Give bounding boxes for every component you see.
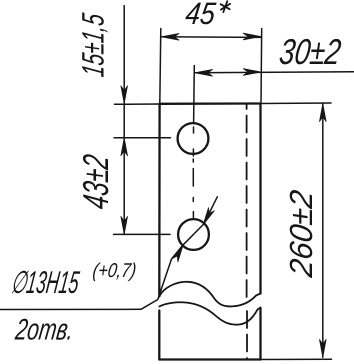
text 260±2 (rotated): [283, 187, 319, 280]
text 2отв.: [13, 312, 76, 347]
hidden bend line (dashed) lower: [246, 311, 248, 359]
arrow dim45 left: [162, 34, 180, 41]
dim 260: dimension line: [322, 104, 324, 357]
svg-text:43±2: 43±2: [75, 152, 116, 211]
text 45*: [183, 0, 218, 31]
callout shelf line: [1, 308, 142, 310]
plate right edge upper: [259, 104, 261, 294]
dim 45: right extension line: [260, 29, 263, 104]
plate right edge lower: [259, 308, 261, 360]
arrow dim15 down: [121, 86, 128, 104]
text 43±2 (rotated): [75, 152, 116, 211]
plate left edge upper: [158, 104, 161, 297]
svg-text:45: 45: [183, 0, 218, 31]
hole 1 (upper): [178, 123, 209, 154]
vertical centerline above hole 1 / extension for 30 dim: [193, 66, 196, 124]
break wavy line lower: [159, 302, 260, 324]
svg-text:260±2: 260±2: [283, 187, 319, 280]
text star of 45* (drawn asterisk): [221, 1, 231, 12]
text 30±2: [277, 32, 343, 72]
arrow dim30 left: [195, 70, 213, 77]
dim 45: left extension line: [160, 29, 161, 104]
top edge extension left (for 15 dim): [115, 103, 160, 105]
leader line to callout shelf: [141, 245, 183, 309]
dim 15/43: vertical dimension line: [123, 6, 125, 235]
dim 260: bottom extension (plate bottom edge extended): [261, 358, 332, 360]
dim 45: dimension line: [161, 36, 262, 39]
horizontal centerline hole 1 / extension for 15 and 43 dims: [114, 137, 171, 139]
horizontal centerline hole 2 / extension for 43 dim: [114, 233, 171, 235]
plate top edge: [160, 102, 261, 105]
centerline below hole 1 (dash-dot to hole 2): [192, 149, 194, 219]
dim 30: dimension line extending right: [195, 72, 354, 73]
svg-text:15±1,5: 15±1,5: [75, 11, 110, 79]
plate left edge lower: [158, 311, 160, 360]
svg-text:(+0,7): (+0,7): [91, 259, 137, 282]
plate bottom edge: [159, 358, 260, 360]
text 15±1,5 (rotated): [75, 11, 110, 79]
arrow dim43 down: [121, 217, 128, 235]
hole 2 (lower): [178, 219, 209, 250]
arrow dim260 up: [320, 104, 327, 122]
arrow dim30 right: [243, 69, 260, 76]
text ⌀13H15: [9, 266, 82, 300]
svg-text:∅13H15: ∅13H15: [9, 266, 82, 300]
arrow dim45 right: [243, 33, 261, 40]
arrow diameter upper (pointing down-left at circle): [203, 208, 214, 225]
centerline tick inside hole 1: [193, 127, 195, 133]
arrow dim43 up: [121, 138, 128, 156]
break wavy line upper: [159, 282, 260, 307]
arrow dim260 down: [320, 340, 327, 358]
svg-text:2отв.: 2отв.: [13, 312, 76, 347]
diameter dim line through hole 2: [204, 197, 218, 224]
arrow diameter lower (pointing up-right at circle): [172, 245, 183, 262]
hidden bend line (dashed) upper: [246, 104, 248, 299]
dim 260: top extension (plate top edge extended): [261, 102, 332, 105]
text superscript (+0,7): [91, 259, 137, 282]
svg-text:30±2: 30±2: [277, 32, 343, 72]
